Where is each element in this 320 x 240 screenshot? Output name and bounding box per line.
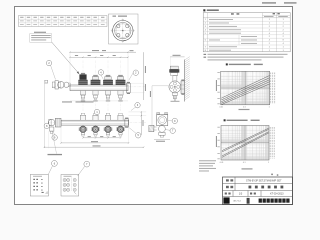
- svg-text:0.1: 0.1: [243, 162, 246, 164]
- svg-text:STM-BY3P SET,STM-BVMP SET: STM-BY3P SET,STM-BVMP SET: [246, 180, 282, 183]
- svg-text:2: 2: [283, 29, 284, 31]
- svg-text:1: 1: [269, 107, 270, 109]
- svg-text:1: 1: [283, 46, 284, 48]
- svg-text:0.1: 0.1: [243, 107, 246, 109]
- svg-text:6: 6: [205, 40, 206, 42]
- svg-text:1: 1: [283, 50, 284, 52]
- svg-text:1: 1: [268, 162, 269, 164]
- svg-text:0.01: 0.01: [219, 107, 223, 109]
- svg-text:0.01: 0.01: [220, 162, 224, 164]
- svg-text:4: 4: [205, 29, 206, 31]
- svg-text:2: 2: [269, 43, 270, 45]
- svg-text:08.7.14: 08.7.14: [233, 201, 241, 203]
- svg-text:4: 4: [283, 43, 284, 45]
- svg-text:1: 1: [269, 50, 270, 52]
- svg-text:KT-CH-2013: KT-CH-2013: [270, 193, 284, 196]
- svg-text:2: 2: [269, 36, 270, 38]
- svg-text:1: 1: [269, 46, 270, 48]
- svg-text:2: 2: [283, 36, 284, 38]
- svg-text:8: 8: [283, 40, 284, 42]
- svg-text:3: 3: [205, 26, 206, 28]
- svg-text:2: 2: [283, 26, 284, 28]
- svg-text:2: 2: [269, 29, 270, 31]
- svg-text:4: 4: [269, 33, 270, 35]
- svg-text:4: 4: [283, 33, 284, 35]
- svg-text:1: 1: [269, 19, 270, 21]
- svg-text:1: 1: [283, 23, 284, 25]
- svg-text:8: 8: [205, 50, 206, 52]
- svg-text:2: 2: [205, 23, 206, 25]
- svg-text:7: 7: [205, 46, 206, 48]
- svg-text:4: 4: [269, 40, 270, 42]
- svg-text:1: 1: [269, 23, 270, 25]
- svg-text:2: 2: [269, 26, 270, 28]
- svg-text:5: 5: [205, 33, 206, 35]
- svg-text:1: 1: [205, 19, 206, 21]
- svg-text:1: 1: [283, 19, 284, 21]
